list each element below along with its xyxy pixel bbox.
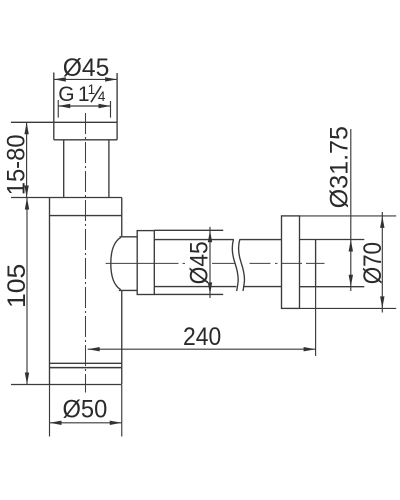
outlet pipe horizontal centerline <box>106 262 325 264</box>
arrowhead Ø50 right <box>110 421 122 425</box>
svg-text:1: 1 <box>88 82 96 97</box>
svg-text:Ø31.75: Ø31.75 <box>325 126 353 208</box>
arrowhead Ø31.75 down <box>349 275 353 287</box>
G1¼ left extension line <box>57 100 59 118</box>
inlet tailpiece tube right edge <box>108 140 110 198</box>
body right edge lower segment <box>121 290 123 384</box>
dimension line 15-80 <box>26 122 28 197</box>
inlet cap bottom edge <box>54 139 117 141</box>
svg-text:Ø50: Ø50 <box>63 396 108 424</box>
svg-text:Ø45: Ø45 <box>63 54 110 82</box>
arrowhead G1¼ left <box>58 104 70 108</box>
svg-text:15-80: 15-80 <box>3 134 31 195</box>
body bottom edge with extension line to 105 dimension <box>11 384 122 386</box>
arrowhead G1¼ right <box>99 104 111 108</box>
outlet pipe bottom line right of break <box>243 286 282 288</box>
dimension line Ø45 (top cap) <box>54 78 117 80</box>
svg-text:Ø45: Ø45 <box>185 241 213 284</box>
body cup joint line upper <box>50 362 122 364</box>
outlet pipe top line right of break <box>240 239 282 241</box>
dimension line G1¼ <box>58 105 110 107</box>
arrowhead 240 left <box>88 347 100 351</box>
arrowhead 105 down <box>25 373 29 385</box>
G1¼ right extension line <box>110 101 112 118</box>
wall flange escutcheon <box>282 216 300 309</box>
240 right extension line <box>315 287 317 356</box>
outlet sleeve top line <box>154 229 223 231</box>
body cup joint line lower <box>50 367 122 369</box>
outlet pipe end cap <box>315 240 317 287</box>
Ø50 left extension line <box>49 385 51 437</box>
arrowhead Ø45-top left <box>54 77 66 81</box>
outlet pipe bottom line left of break <box>154 286 236 288</box>
outlet dome bulge arc <box>111 237 121 289</box>
flange bottom extension line for Ø70 <box>300 307 397 309</box>
svg-text:G: G <box>58 83 74 106</box>
svg-text:4: 4 <box>98 89 106 104</box>
svg-text:Ø70: Ø70 <box>359 242 387 284</box>
outlet pipe top line left of break <box>154 239 234 241</box>
inlet cap right edge + Ø45 right extension <box>116 73 118 140</box>
pipe break curve right <box>238 239 244 291</box>
dimension line Ø50 <box>50 422 122 424</box>
arrowhead Ø45-outlet up <box>208 230 212 242</box>
body left edge <box>49 198 51 385</box>
outlet dome top line <box>120 236 138 238</box>
svg-text:105: 105 <box>3 264 31 308</box>
outlet dome bottom line <box>119 289 137 291</box>
arrowhead 15-80 up <box>24 122 28 134</box>
arrowhead Ø45-top right <box>105 77 117 81</box>
arrowhead Ø45-outlet down <box>208 282 212 294</box>
dimension line Ø45 (outlet sleeve) <box>209 227 211 298</box>
inlet cap top edge with extension line to 15-80 dimension <box>11 121 117 123</box>
pipe break curve left <box>232 239 238 291</box>
body top edge with extension line to 105 dimension <box>11 197 122 199</box>
body right edge upper segment <box>121 198 123 237</box>
outlet pipe top line right of flange + Ø31.75 extension <box>300 239 365 241</box>
arrowhead 105 up <box>25 198 29 210</box>
arrowhead 15-80 down <box>24 186 28 198</box>
arrowhead Ø70 up <box>380 216 384 228</box>
svg-text:240: 240 <box>183 323 221 351</box>
flange top extension line for Ø70 <box>300 215 397 217</box>
outlet pipe bottom line right of flange + Ø31.75 extension <box>300 286 365 288</box>
dimension line 105 <box>26 198 28 385</box>
outlet sleeve bottom line <box>154 293 223 295</box>
Ø50 right extension line <box>121 385 123 437</box>
arrowhead Ø50 left <box>50 421 62 425</box>
inlet tailpiece tube left edge <box>63 140 65 198</box>
arrowhead Ø31.75 up <box>349 240 353 252</box>
body upper joint ring line <box>50 215 122 217</box>
body vertical centerline <box>85 113 87 393</box>
dimension line Ø70 <box>381 212 383 313</box>
inlet cap left edge + Ø45 left extension <box>53 73 55 140</box>
arrowhead Ø70 down <box>380 296 384 308</box>
arrowhead 240 right <box>304 347 316 351</box>
dimension line 240 <box>88 348 316 350</box>
outlet nut <box>137 231 154 295</box>
dimension line Ø31.75 <box>350 129 352 291</box>
